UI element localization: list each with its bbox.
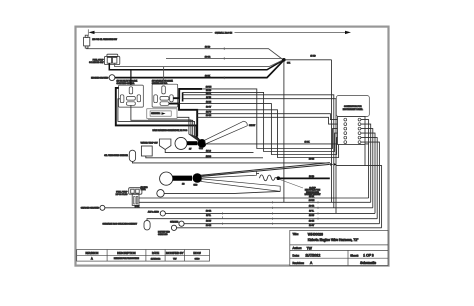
harness wire m2 to pin6 — [197, 110, 344, 158]
splice junction SP1 — [282, 58, 286, 62]
svg-text:Date:: Date: — [293, 253, 300, 257]
splice dot C — [277, 176, 281, 180]
svg-text:18 GY: 18 GY — [309, 225, 315, 227]
wire ring2 — [165, 212, 375, 214]
svg-text:A: A — [91, 257, 93, 261]
svg-text:18 GN: 18 GN — [206, 115, 212, 117]
wire ring D — [164, 191, 280, 193]
wire ring1 — [105, 207, 373, 209]
svg-text:SM-2: SM-2 — [199, 148, 203, 150]
plug wire 2 — [139, 201, 371, 203]
glow plug connector P1 — [104, 54, 119, 64]
revision table — [77, 250, 210, 262]
trunk verticals bends — [331, 60, 333, 203]
svg-text:CABLE LUG: CABLE LUG — [158, 233, 168, 236]
ring terminal 3 — [179, 221, 184, 226]
wire to service loop — [257, 172, 260, 174]
lower wire labels right — [309, 196, 315, 227]
svg-text:18 YL: 18 YL — [309, 211, 314, 213]
oil sender capsule — [129, 150, 135, 161]
svg-text:10 BK: 10 BK — [205, 75, 211, 77]
svg-text:DESCRIPTION: DESCRIPTION — [117, 251, 135, 255]
oil sender square — [141, 146, 152, 156]
fan A bottom wire — [205, 143, 368, 145]
svg-text:18 GY: 18 GY — [206, 107, 212, 109]
service loop squiggle — [260, 175, 277, 181]
lower wire labels mid — [206, 211, 212, 227]
svg-text:WH00026: WH00026 — [308, 233, 323, 237]
svg-text:OVERALL 72.00 IN: OVERALL 72.00 IN — [215, 32, 233, 35]
plug wire 1 — [139, 197, 369, 199]
svg-text:SOLENOID 12V: SOLENOID 12V — [89, 62, 104, 64]
harness wire m3 to pin1 — [197, 114, 344, 120]
svg-text:27: 27 — [189, 148, 192, 150]
trunk wire down from SP1 — [283, 62, 285, 202]
engine ground ring R0 — [109, 75, 115, 81]
svg-text:16 OR: 16 OR — [205, 56, 211, 58]
bundle A — [187, 141, 198, 145]
connector J1 body — [338, 117, 366, 145]
wire tag down — [165, 150, 253, 153]
svg-text:GLOW PLUG CONTROL: GLOW PLUG CONTROL — [117, 83, 135, 85]
svg-text:ALT B+ RING: ALT B+ RING — [148, 211, 159, 214]
svg-text:Kubota Engine Wire Harness, 72: Kubota Engine Wire Harness, 72" — [308, 238, 359, 242]
wire S1 to splice — [87, 48, 283, 59]
svg-text:250 PSI OIL PRESSURE SW: 250 PSI OIL PRESSURE SW — [92, 39, 117, 41]
svg-text:CHASSIS GROUND: CHASSIS GROUND — [81, 207, 100, 210]
svg-text:Schematic: Schematic — [360, 261, 376, 265]
title block — [290, 230, 388, 265]
svg-text:28: 28 — [182, 184, 185, 186]
wire labels mid column — [206, 87, 212, 158]
trunk wire right from SP1 — [286, 59, 332, 61]
svg-text:SM-3: SM-3 — [194, 185, 198, 187]
svg-text:Title:: Title: — [293, 232, 299, 236]
svg-text:18 RD: 18 RD — [310, 56, 316, 58]
ring terminal 1 — [100, 205, 105, 210]
note box with arrow — [147, 109, 177, 119]
svg-text:18 BN: 18 BN — [206, 102, 212, 104]
svg-text:DATE: DATE — [152, 251, 159, 255]
svg-text:TERM.: TERM. — [141, 189, 147, 191]
svg-text:18 WH: 18 WH — [309, 200, 315, 202]
right pin wires down — [361, 120, 369, 198]
border frame — [76, 27, 389, 266]
harness wire m4 to pin2 — [197, 117, 344, 124]
harness wire m1 to pin5 — [178, 104, 344, 155]
svg-text:18 BK: 18 BK — [309, 196, 315, 198]
svg-text:10 RD: 10 RD — [309, 176, 315, 178]
svg-text:18 TN: 18 TN — [206, 97, 212, 99]
svg-text:MAIN HARNESS BREAKOUT, 12 POS: MAIN HARNESS BREAKOUT, 12 POS — [153, 129, 188, 132]
svg-text:1 OF 3: 1 OF 3 — [363, 254, 373, 258]
wire K2 30 thick — [173, 89, 202, 98]
svg-text:ECO#: ECO# — [193, 251, 201, 255]
svg-text:11/7/2012: 11/7/2012 — [305, 254, 320, 258]
connector J1 label box — [336, 96, 369, 117]
ground wire thick — [115, 61, 283, 78]
wire P1 pin2 — [115, 60, 283, 67]
circle A main connector — [175, 137, 187, 149]
svg-text:11/7/2012: 11/7/2012 — [151, 258, 161, 260]
svg-text:SEE NOTE 2: SEE NOTE 2 — [151, 113, 160, 115]
wire ring3 — [184, 223, 379, 225]
wire square down — [146, 156, 263, 158]
oil pressure switch S1 — [84, 35, 90, 48]
wire loop B — [118, 99, 200, 142]
svg-text:18 GN: 18 GN — [309, 220, 315, 222]
harness wire w4 trunk — [182, 99, 336, 214]
svg-text:0980: 0980 — [195, 258, 201, 260]
circle B engine connector — [160, 172, 173, 185]
svg-text:SEE NT: SEE NT — [249, 125, 255, 127]
svg-text:12V 40A RELAY P/N 84-1011: 12V 40A RELAY P/N 84-1011 — [117, 80, 138, 83]
wire K1 coil up — [130, 70, 132, 85]
water temp sender tag — [159, 139, 171, 150]
svg-text:18 GN: 18 GN — [206, 225, 212, 227]
svg-text:RELEASE FOR PRODUCTION: RELEASE FOR PRODUCTION — [114, 257, 140, 260]
leader to fuse note — [280, 179, 304, 188]
svg-text:18 BU: 18 BU — [206, 220, 212, 222]
svg-text:18 PU: 18 PU — [206, 112, 212, 114]
connector J1 pins — [344, 118, 361, 143]
svg-text:18 OR: 18 OR — [206, 211, 212, 213]
svg-text:MODIFIED BY: MODIFIED BY — [166, 251, 184, 255]
ticks on lower wires — [223, 76, 318, 225]
wire capsule down — [132, 162, 329, 163]
wire K2 coil up — [163, 67, 165, 85]
wire P1 pin1 dark — [109, 60, 282, 70]
svg-text:Author:: Author: — [293, 246, 302, 250]
fan B callout wedge upper — [202, 171, 257, 178]
splice dot A — [198, 139, 207, 148]
svg-text:INSTRUMENT PANEL: INSTRUMENT PANEL — [343, 108, 364, 111]
dimension line 72in overall — [88, 29, 345, 35]
harness wire w2 to pin4 — [183, 92, 344, 151]
svg-text:18 BK: 18 BK — [305, 142, 311, 144]
svg-text:OIL PRESSURE SENDER: OIL PRESSURE SENDER — [104, 155, 128, 157]
svg-text:CONNECTOR FOR: CONNECTOR FOR — [344, 106, 362, 108]
svg-text:SUBNAME ROD BULK DISCONNECT: SUBNAME ROD BULK DISCONNECT — [103, 222, 138, 225]
wire capsule — [147, 219, 377, 221]
svg-text:WATER TEMP SW: WATER TEMP SW — [141, 141, 158, 144]
relay K2 — [152, 84, 178, 107]
bulk disconnect capsule — [144, 220, 150, 230]
svg-text:12V 40A RELAY P/N 84-1011: 12V 40A RELAY P/N 84-1011 — [152, 80, 173, 83]
tick on B+ wire — [223, 47, 225, 50]
bundle B — [173, 176, 193, 181]
svg-text:18 BU: 18 BU — [309, 215, 315, 217]
wire bundle to lower connector edge — [336, 165, 365, 167]
ring terminal 4 — [171, 225, 176, 230]
harness wire w3 trunk — [182, 95, 333, 208]
fuel pump plug P2 — [129, 188, 142, 206]
svg-text:Sheet:: Sheet: — [350, 253, 358, 257]
svg-text:ENGINE GROUND: ENGINE GROUND — [91, 78, 109, 80]
wire wrap 1 — [150, 117, 198, 140]
wire wrap 2 — [148, 120, 199, 141]
fan A callout wedge — [205, 121, 247, 144]
fan B wires — [201, 163, 330, 176]
wire mid y58 — [166, 57, 282, 59]
svg-text:SP1: SP1 — [287, 63, 290, 65]
svg-text:2 POS PLUG: 2 POS PLUG — [116, 194, 128, 196]
wire K2 87 thick L — [169, 104, 197, 137]
fan B callout wedge lower — [201, 179, 280, 192]
svg-text:Revision:: Revision: — [293, 261, 305, 265]
svg-text:TW: TW — [307, 246, 313, 250]
svg-text:18 YL: 18 YL — [206, 215, 211, 217]
harness wire w1 to pin3 — [202, 89, 344, 149]
splice dot B — [193, 173, 203, 183]
wire K1 87 down — [131, 105, 199, 141]
wire loop A thick around relays — [116, 88, 201, 142]
svg-text:18 PK: 18 PK — [206, 93, 212, 95]
relay K1 — [119, 85, 144, 107]
outer return wire — [365, 145, 382, 228]
svg-text:12 RD: 12 RD — [206, 90, 212, 92]
ring terminal 2 — [160, 211, 165, 216]
big ring terminal D — [157, 190, 164, 197]
svg-text:REVISION: REVISION — [85, 251, 98, 255]
svg-text:18 OR: 18 OR — [309, 205, 315, 207]
svg-text:18 WH: 18 WH — [206, 87, 212, 89]
svg-text:18 GN: 18 GN — [309, 159, 315, 161]
svg-text:STARTER: STARTER — [170, 220, 179, 223]
wire ring4 — [177, 227, 382, 229]
chevron joins into trunk — [330, 163, 333, 166]
fuse holder note text — [305, 186, 322, 196]
svg-text:18 RD: 18 RD — [205, 47, 211, 49]
battery feed thick wire — [280, 177, 330, 179]
